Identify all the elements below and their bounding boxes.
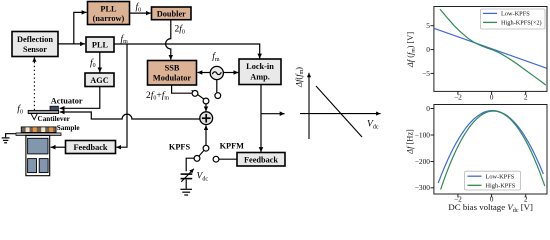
svg-text:Amp.: Amp. [250,73,270,82]
svg-text:Sensor: Sensor [23,45,47,54]
svg-text:Actuator: Actuator [51,96,83,105]
svg-text:−5: −5 [422,69,430,78]
svg-text:−300: −300 [415,183,431,192]
svg-text:−100: −100 [415,130,431,139]
svg-text:PLL: PLL [92,41,109,50]
svg-text:−200: −200 [415,157,431,166]
svg-text:PLL: PLL [100,4,117,13]
svg-text:Low-KPFS: Low-KPFS [486,174,515,181]
svg-text:KPFS: KPFS [169,142,191,151]
svg-text:High-KPFS(×2): High-KPFS(×2) [501,20,542,27]
svg-text:Feedback: Feedback [244,156,278,165]
svg-text:0: 0 [426,104,430,113]
svg-text:0: 0 [490,93,494,102]
svg-text:Deflection: Deflection [17,35,53,44]
svg-text:Sample: Sample [57,124,80,132]
svg-text:KPFM: KPFM [220,141,245,150]
svg-text:Modulator: Modulator [153,74,192,83]
svg-text:0: 0 [426,45,430,54]
svg-text:5: 5 [426,21,430,30]
svg-text:2: 2 [524,93,528,102]
svg-text:Feedback: Feedback [73,143,107,152]
svg-text:Δf(fm): Δf(fm) [294,67,306,88]
svg-text:High-KPFS: High-KPFS [486,183,516,190]
svg-text:SSB: SSB [165,63,180,72]
svg-text:AGC: AGC [90,76,108,85]
svg-text:Doubler: Doubler [157,9,186,18]
svg-text:Low-KPFS: Low-KPFS [501,11,530,18]
svg-text:(narrow): (narrow) [93,14,125,23]
svg-text:−2: −2 [454,93,462,102]
svg-text:Δf [Hz]: Δf [Hz] [406,129,415,155]
svg-text:Lock-in: Lock-in [246,62,274,71]
svg-text:Cantilever: Cantilever [38,115,71,123]
